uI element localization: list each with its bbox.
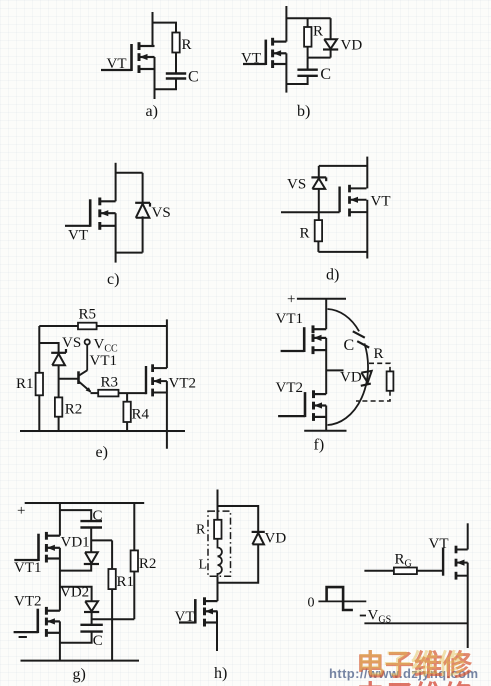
circuit b: diode VD xyxy=(323,39,338,49)
circuit h: label VT xyxy=(175,609,195,625)
watermark url text xyxy=(329,666,478,681)
circuit f: capacitor C on arc xyxy=(353,331,369,347)
svg-text:VT1: VT1 xyxy=(90,353,118,369)
circuit f: dashed wire to R top xyxy=(369,363,390,371)
circuit c: wire VS lower lead xyxy=(142,216,144,252)
circuit h: label R xyxy=(196,523,206,538)
circuit c: wire VS upper lead xyxy=(142,173,144,203)
svg-text:VT: VT xyxy=(68,228,88,244)
circuit i: waveform pulse xyxy=(327,587,353,610)
circuit g: label minus xyxy=(19,636,27,638)
circuit i: wire source down xyxy=(467,563,469,648)
svg-text:VCC: VCC xyxy=(94,337,119,355)
circuit b: caption b) xyxy=(297,103,310,120)
svg-text:R: R xyxy=(374,346,384,362)
circuit d: wire VS to R xyxy=(318,189,320,220)
circuit g: wire source rail lower xyxy=(59,621,61,660)
circuit d: wire drain stub up xyxy=(366,157,368,189)
circuit f: wire source rail lower xyxy=(325,406,327,431)
circuit e: label R5 xyxy=(79,307,97,323)
svg-text:R1: R1 xyxy=(16,376,34,392)
circuit f: diode VD on arc xyxy=(361,371,372,386)
circuit e: transistor VT1 (BJT) xyxy=(79,344,92,392)
circuit e: resistor R3 xyxy=(98,390,118,397)
circuit b: capacitor C xyxy=(297,70,317,76)
circuit g: label plus xyxy=(17,503,25,519)
circuit e: wire R2 lower lead xyxy=(58,417,60,431)
circuit a: label C xyxy=(188,69,199,86)
svg-text:C: C xyxy=(320,66,331,83)
circuit e: wire emitter to R3 xyxy=(91,392,99,394)
circuit g: wire junction to R1 xyxy=(91,539,112,541)
svg-text:VT: VT xyxy=(429,536,449,552)
circuit e: resistor R1 xyxy=(36,373,43,396)
circuit d: label VS xyxy=(287,177,306,193)
circuit h: label VD xyxy=(265,531,287,547)
circuit b: label VT xyxy=(241,51,261,67)
circuit g: wire drain rail upper xyxy=(59,503,61,536)
svg-text:VT: VT xyxy=(241,51,261,67)
circuit g: wire R1 lower lead xyxy=(111,589,113,661)
svg-text:f): f) xyxy=(314,437,325,454)
circuit a: wire drain stub up xyxy=(152,12,154,46)
svg-text:VS: VS xyxy=(62,335,81,351)
circuit g: capacitor C lower xyxy=(80,625,102,632)
circuit i: wire bottom return xyxy=(364,622,467,624)
svg-text:VT2: VT2 xyxy=(14,594,42,610)
circuit d: label R xyxy=(300,226,310,242)
svg-text:R: R xyxy=(313,24,323,40)
circuit i: resistor RG xyxy=(394,568,417,575)
circuit e: wire R4 upper lead xyxy=(126,393,128,402)
svg-text:a): a) xyxy=(146,103,158,120)
circuit g: label VT2 xyxy=(14,594,42,610)
circuit f: caption f) xyxy=(314,437,325,454)
svg-text:R1: R1 xyxy=(117,574,135,590)
circuit g: wire middle rail xyxy=(59,548,61,611)
circuit e: transistor VT2 (MOSFET) xyxy=(146,364,167,396)
circuit i: label RG xyxy=(395,552,412,570)
circuit f: wire mid node stub xyxy=(326,369,343,371)
circuit f: label C xyxy=(344,337,355,354)
circuit f: wire drain rail upper xyxy=(325,299,327,329)
circuit a: wire R to C xyxy=(175,53,177,74)
svg-text:VT1: VT1 xyxy=(276,311,304,327)
circuit e: label VT2 xyxy=(169,376,197,392)
circuit d: label VT xyxy=(371,194,391,210)
circuit b: label VD xyxy=(341,38,363,54)
circuit g: wire junction to R2 bottom xyxy=(92,618,135,620)
circuit g: label VD2 xyxy=(60,585,89,601)
circuit a: caption a) xyxy=(146,103,158,120)
circuit e: wire left rail xyxy=(38,326,40,431)
circuit g: transistor VT1 (MOSFET) xyxy=(14,532,60,563)
circuit d: caption d) xyxy=(326,267,339,284)
circuit f: transistor VT1 (MOSFET) xyxy=(281,325,327,354)
circuit g: wire C to source node xyxy=(60,632,92,643)
circuit e: wire R4 lower lead xyxy=(126,422,128,431)
circuit e: label R4 xyxy=(132,407,150,423)
circuit f: label R xyxy=(374,346,384,362)
circuit g: wire C to VD1 xyxy=(90,528,92,553)
circuit e: resistor R4 xyxy=(123,402,130,422)
circuit f: label VT2 xyxy=(276,380,304,396)
circuit g: transistor VT2 (MOSFET) xyxy=(14,607,60,637)
circuit g: wire R1 upper lead xyxy=(111,540,113,569)
circuit h: wire source down xyxy=(216,611,218,651)
circuit g: label R2 xyxy=(139,556,157,572)
circuit a: wire top to R xyxy=(153,23,177,33)
circuit f: resistor R xyxy=(387,371,394,390)
svg-text:+: + xyxy=(17,503,25,519)
circuit i: wire gate lead xyxy=(364,570,394,572)
circuit i: label 0 xyxy=(308,596,315,611)
circuit f: snubber arc lower segment xyxy=(328,343,369,425)
svg-text:h): h) xyxy=(214,665,227,682)
circuit e: wire base node to VT1 xyxy=(59,378,79,380)
circuit a: transistor VT (MOSFET) xyxy=(101,42,155,73)
svg-text:R2: R2 xyxy=(65,402,83,418)
svg-text:VS: VS xyxy=(152,205,171,221)
svg-text:e): e) xyxy=(96,444,108,461)
circuit b: transistor VT (MOSFET) xyxy=(243,38,286,68)
svg-text:g): g) xyxy=(73,666,86,683)
circuit a: wire source down xyxy=(154,57,156,99)
circuit a: label R xyxy=(182,37,192,53)
circuit a: resistor R xyxy=(172,33,179,53)
svg-text:VT: VT xyxy=(371,194,391,210)
circuit g: wire VD1 to mid node xyxy=(60,564,91,571)
svg-text:+: + xyxy=(287,292,295,308)
circuit g: resistor R1 xyxy=(108,569,115,589)
circuit g: diode VD1 xyxy=(84,552,99,564)
circuit d: wire bottom node xyxy=(318,251,367,253)
circuit g: label C lower xyxy=(93,633,103,649)
svg-text:d): d) xyxy=(326,267,339,284)
svg-text:VT1: VT1 xyxy=(14,560,42,576)
circuit h: wire VD to bottom node xyxy=(218,544,259,582)
circuit e: label R3 xyxy=(101,375,119,391)
circuit i: waveform zero axis xyxy=(318,600,366,602)
circuit g: wire upper snubber top xyxy=(60,510,91,521)
circuit i: wire RG to gate xyxy=(417,570,443,572)
circuit h: label L xyxy=(199,558,208,573)
circuit e: zener diode VS xyxy=(51,349,66,365)
circuit e: wire bottom rail xyxy=(20,430,185,432)
svg-text:VD2: VD2 xyxy=(60,585,89,601)
circuit e: wire right rail lower xyxy=(166,381,168,449)
circuit e: label VT1 xyxy=(90,353,118,369)
svg-text:C: C xyxy=(93,633,103,649)
svg-text:R4: R4 xyxy=(132,407,150,423)
svg-text:VS: VS xyxy=(287,177,306,193)
circuit g: label VD1 xyxy=(61,535,90,551)
circuit g: label VT1 xyxy=(14,560,42,576)
svg-text:VD: VD xyxy=(340,370,362,386)
circuit b: label R xyxy=(313,24,323,40)
circuit c: label VT xyxy=(68,228,88,244)
svg-text:R: R xyxy=(196,523,206,538)
circuit f: dashed wire from R bottom xyxy=(356,391,390,401)
circuit a: capacitor C xyxy=(166,74,186,79)
circuit b: wire node R-VD xyxy=(308,57,331,59)
circuit d: wire top node xyxy=(319,165,368,167)
circuit g: wire bottom rail xyxy=(21,660,140,662)
circuit f: snubber arc upper segment xyxy=(328,309,360,331)
svg-text:电子维修: 电子维修 xyxy=(357,650,466,680)
svg-text:电子维修: 电子维修 xyxy=(356,680,473,686)
circuit i: label VT xyxy=(429,536,449,552)
circuit d: resistor R xyxy=(315,220,322,241)
circuit h: wire top node to VD xyxy=(218,506,259,532)
circuit a: label VT xyxy=(107,56,127,72)
circuit e: label R2 xyxy=(65,402,83,418)
circuit b: label C xyxy=(320,66,331,83)
circuit d: wire source down xyxy=(366,200,368,259)
circuit e: resistor R2 xyxy=(55,397,62,416)
svg-text:0: 0 xyxy=(308,596,315,611)
circuit g: wire top rail xyxy=(25,502,145,504)
circuit c: wire drain up xyxy=(115,163,117,202)
svg-text:RG: RG xyxy=(395,552,412,570)
svg-text:R3: R3 xyxy=(101,375,119,391)
circuit c: wire bottom node xyxy=(116,252,143,254)
watermark red characters row 1 xyxy=(356,649,473,682)
circuit b: wire R branch upper lead xyxy=(307,18,309,27)
svg-text:c): c) xyxy=(107,271,119,288)
svg-text:VT2: VT2 xyxy=(276,380,304,396)
circuit e: wire rail to VS xyxy=(39,343,58,353)
circuit h: transistor VT (MOSFET) xyxy=(179,597,218,626)
circuit e: wire VS to R2 (base node) xyxy=(58,365,60,397)
circuit e: terminal Vcc circle xyxy=(85,339,90,344)
circuit g: label C upper xyxy=(93,508,103,524)
circuit d: wire VS upper lead xyxy=(318,166,320,178)
svg-text:R: R xyxy=(300,226,310,242)
circuit a: wire C to source xyxy=(155,79,177,90)
circuit e: caption e) xyxy=(96,444,108,461)
circuit i: label -VGS xyxy=(360,608,391,626)
circuit d: wire gate node xyxy=(281,211,340,213)
circuit b: wire node to C xyxy=(307,58,309,70)
circuit e: label VS xyxy=(62,335,81,351)
svg-text:R5: R5 xyxy=(79,307,97,323)
svg-text:R: R xyxy=(182,37,192,53)
circuit f: wire top rail xyxy=(297,298,346,300)
circuit f: label plus xyxy=(287,292,295,308)
circuit g: wire VD2 to C xyxy=(91,612,93,625)
circuit c: zener diode VS xyxy=(135,203,150,218)
circuit h: diode VD xyxy=(252,532,265,545)
circuit c: wire top node xyxy=(116,172,143,174)
circuit b: resistor R xyxy=(304,27,311,47)
svg-text:VT: VT xyxy=(107,56,127,72)
circuit h: inductor L xyxy=(218,539,222,576)
circuit f: transistor VT2 (MOSFET) xyxy=(278,390,326,421)
circuit e: label R1 xyxy=(16,376,34,392)
circuit e: label Vcc xyxy=(94,337,119,355)
circuit h: wire top lead xyxy=(217,490,219,520)
circuit b: wire VD branch upper lead xyxy=(330,18,332,39)
circuit c: transistor VT (MOSFET) xyxy=(65,198,116,230)
svg-text:C: C xyxy=(188,69,199,86)
circuit f: label VT1 xyxy=(276,311,304,327)
circuit f: wire bottom rail xyxy=(304,430,346,432)
watermark red characters row 2 (clipped) xyxy=(356,680,473,686)
circuit c: label VS xyxy=(152,205,171,221)
circuit b: wire VD lower lead xyxy=(330,50,332,58)
circuit b: wire top node xyxy=(286,17,330,19)
circuit g: wire R2 lower lead xyxy=(133,572,135,620)
circuit f: wire middle rail xyxy=(325,338,327,394)
circuit e: wire top rail with stub xyxy=(39,325,167,327)
svg-text:VD1: VD1 xyxy=(61,535,90,551)
circuit g: wire lower snubber top xyxy=(60,587,92,602)
circuit f: label VD xyxy=(340,370,362,386)
circuit e: wire right rail upper xyxy=(166,319,168,368)
svg-text:VT2: VT2 xyxy=(169,376,197,392)
circuit h: wire load to drain xyxy=(217,576,219,601)
circuit b: wire R lower lead xyxy=(307,47,309,58)
circuit c: caption c) xyxy=(107,271,119,288)
circuit g: capacitor C upper xyxy=(80,521,102,527)
circuit d: transistor VT (MOSFET) xyxy=(340,185,367,217)
circuit d: wire R lower lead xyxy=(317,241,319,252)
svg-text:VD: VD xyxy=(265,531,287,547)
circuit g: caption g) xyxy=(73,666,86,683)
circuit g: wire R2 upper lead xyxy=(133,503,135,550)
circuit g: resistor R2 xyxy=(131,550,138,571)
svg-text:b): b) xyxy=(297,103,310,120)
svg-text:VD: VD xyxy=(341,38,363,54)
circuit g: diode VD2 xyxy=(84,601,99,612)
circuit h: caption h) xyxy=(214,665,227,682)
svg-text:C: C xyxy=(93,508,103,524)
circuit c: wire source down xyxy=(115,213,117,262)
circuit e: resistor R5 xyxy=(78,323,97,330)
circuit b: wire drain stub up xyxy=(285,6,287,42)
svg-text:VT: VT xyxy=(175,609,195,625)
svg-text:L: L xyxy=(199,558,208,573)
circuit h: load box (dash-dot) xyxy=(208,511,231,576)
circuit b: wire C to source xyxy=(286,76,307,84)
circuit h: resistor R xyxy=(214,520,221,539)
svg-text:R2: R2 xyxy=(139,556,157,572)
circuit b: wire source down xyxy=(285,53,287,92)
circuit i: wire drain up xyxy=(467,523,469,549)
circuit i: transistor VT (MOSFET) xyxy=(443,546,468,580)
circuit e: wire R3 to gate xyxy=(119,392,147,394)
svg-text:C: C xyxy=(344,337,355,354)
circuit g: label R1 xyxy=(117,574,135,590)
circuit d: zener diode VS xyxy=(311,177,326,189)
